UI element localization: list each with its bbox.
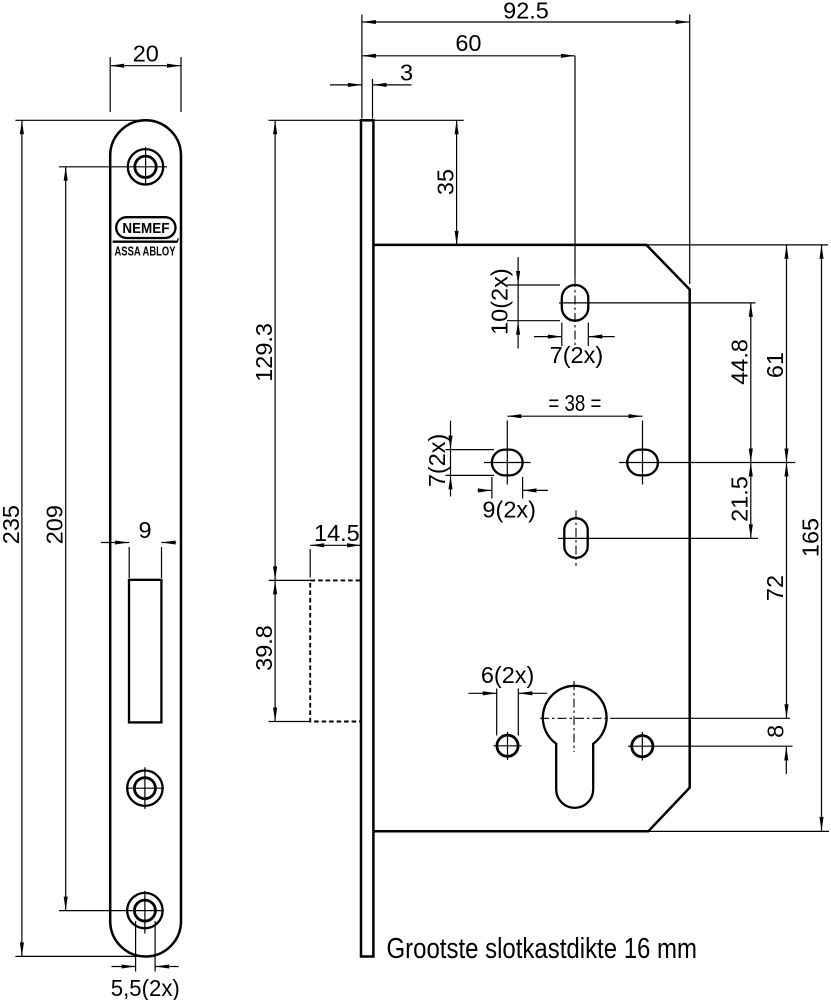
dimension =38= hole spacing	[507, 390, 642, 485]
svg-text:209: 209	[42, 505, 68, 544]
dimension 72	[762, 463, 789, 719]
center oval hole	[558, 511, 758, 567]
svg-text:60: 60	[455, 30, 481, 56]
dimension 235 overall height	[0, 120, 148, 956]
svg-text:7(2x): 7(2x)	[424, 434, 450, 488]
caption text	[387, 933, 698, 965]
dimension 21.5	[726, 463, 753, 539]
dimension 61	[646, 245, 828, 463]
dimension 5,5(2x) screw hole	[111, 921, 180, 1000]
svg-text:92.5: 92.5	[503, 0, 549, 23]
svg-text:21.5: 21.5	[726, 476, 752, 522]
dimension 92.5 case depth	[362, 0, 690, 284]
handle hole right	[619, 450, 795, 476]
svg-text:ASSA ABLOY: ASSA ABLOY	[115, 244, 176, 258]
svg-text:9: 9	[138, 517, 151, 543]
svg-text:129.3: 129.3	[251, 323, 277, 382]
dimension 20 faceplate width	[110, 41, 181, 112]
euro cylinder hole	[540, 681, 790, 808]
dimension 35	[269, 120, 464, 245]
middle screw hole	[126, 767, 164, 809]
dimension 209 hole spacing	[42, 167, 167, 911]
svg-text:= 38 =: = 38 =	[548, 390, 601, 416]
dimension 8 fixing hole offset	[762, 725, 788, 774]
svg-text:235: 235	[0, 505, 24, 544]
top screw hole	[128, 147, 163, 185]
dimension 60 backset	[362, 30, 575, 58]
lock case outline	[373, 245, 689, 831]
dimension 7(2x) top hole	[534, 323, 615, 368]
dimension 9(2x) handle hole width	[478, 477, 548, 522]
latch bolt dashed	[310, 580, 360, 721]
svg-text:14.5: 14.5	[314, 520, 360, 546]
fixing hole left	[493, 732, 521, 760]
dimension 165 case height	[648, 245, 829, 832]
dimension 9 slot width	[101, 517, 176, 578]
svg-text:10(2x): 10(2x)	[487, 268, 513, 335]
svg-text:61: 61	[762, 352, 788, 378]
svg-text:35: 35	[432, 169, 458, 195]
svg-text:165: 165	[797, 518, 823, 557]
svg-text:7(2x): 7(2x)	[550, 342, 604, 368]
svg-text:39.8: 39.8	[251, 625, 277, 671]
svg-text:9(2x): 9(2x)	[482, 496, 536, 522]
svg-text:72: 72	[762, 575, 788, 601]
svg-text:5,5(2x): 5,5(2x)	[111, 975, 180, 1000]
svg-text:Grootste slotkastdikte 16 mm: Grootste slotkastdikte 16 mm	[387, 933, 698, 965]
bottom screw hole	[127, 891, 162, 934]
dimension 6(2x) fixing hole	[468, 662, 547, 736]
spindle top hole	[559, 56, 756, 346]
NEMEF logo	[113, 217, 179, 258]
dimension 10(2x)	[487, 257, 561, 349]
dimension 129.3	[251, 120, 311, 580]
svg-text:8: 8	[762, 725, 788, 738]
svg-text:NEMEF: NEMEF	[122, 221, 169, 237]
svg-text:44.8: 44.8	[726, 339, 752, 385]
dimension 7(2x) handle hole height	[424, 421, 494, 497]
faceplate side view	[361, 120, 373, 956]
svg-text:3: 3	[400, 59, 413, 85]
svg-text:6(2x): 6(2x)	[481, 662, 535, 688]
latch slot cutout	[129, 580, 161, 723]
dimension 3 faceplate thickness	[330, 59, 413, 118]
dimension 39.8 latch height	[251, 580, 311, 721]
dimension 14.5 latch depth	[310, 520, 361, 578]
handle hole left	[484, 450, 531, 476]
fixing hole right	[628, 732, 793, 761]
faceplate front view outline	[110, 120, 181, 956]
dimension 44.8	[726, 303, 753, 463]
svg-text:20: 20	[133, 41, 159, 67]
